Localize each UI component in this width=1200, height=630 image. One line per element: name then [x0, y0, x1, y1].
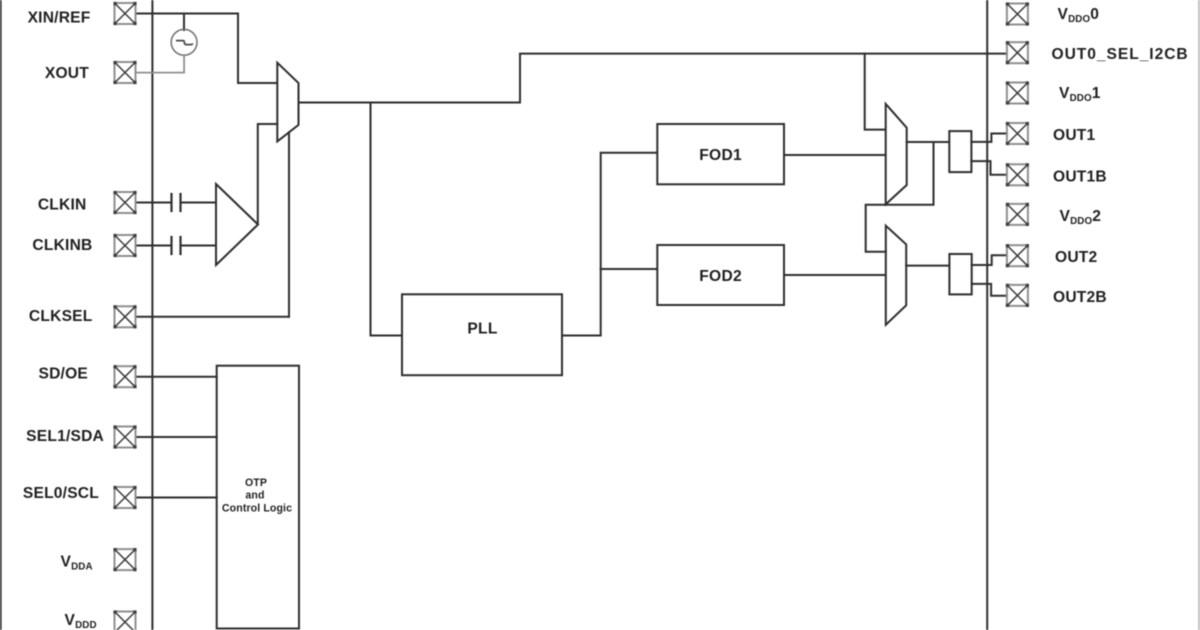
wire SEL1/SDA to OTP [136, 436, 217, 438]
svg-text:SD/OE: SD/OE [38, 366, 88, 383]
mux U3 OUT2 [886, 226, 906, 325]
svg-text:XIN/REF: XIN/REF [28, 10, 91, 27]
wire CLKINB to cap [136, 245, 171, 247]
pin CLKSEL [113, 305, 136, 328]
pin XOUT [113, 61, 136, 84]
svg-text:Control Logic: Control Logic [222, 503, 292, 515]
wire buffer out to mux input 2 [258, 124, 278, 224]
wire CLKSEL [136, 316, 290, 318]
wire osc stem bottom to XOUT [136, 55, 185, 72]
wire mux select [288, 132, 290, 316]
pin CLKINB [113, 234, 136, 257]
svg-text:OTP: OTP [245, 477, 267, 489]
wire mux1 out to buffer [907, 141, 950, 143]
FOD1 block [657, 124, 784, 184]
svg-text:VDDD: VDDD [65, 612, 97, 630]
svg-text:OUT2: OUT2 [1055, 249, 1098, 266]
svg-text:OUT2B: OUT2B [1053, 289, 1107, 306]
pin OUT0_SEL_I2CB [1006, 41, 1029, 64]
wire branch to OUT1 mux [865, 54, 886, 130]
pin OUT1B [1006, 163, 1029, 186]
chip right boundary [986, 0, 988, 630]
svg-text:SEL0/SCL: SEL0/SCL [23, 485, 99, 502]
pin SEL0/SCL [113, 486, 136, 509]
svg-text:OUT1B: OUT1B [1053, 169, 1107, 186]
svg-text:SEL1/SDA: SEL1/SDA [26, 428, 104, 445]
wire FOD1 out [784, 154, 886, 156]
pin XIN/REF [113, 2, 136, 25]
pin VDDO2 [1006, 203, 1029, 226]
wire OUT1 [971, 134, 1007, 142]
wire OUT1B [971, 161, 1007, 175]
mux U1 input select [277, 63, 298, 142]
svg-text:FOD2: FOD2 [699, 268, 742, 285]
wire osc stem top [183, 14, 185, 31]
wire SD/OE to OTP [136, 376, 217, 378]
wire XIN/REF to mux [136, 14, 278, 84]
wire mux out / bypass [299, 54, 1007, 103]
pin SD/OE [113, 365, 136, 388]
pin VDDO1 [1006, 81, 1029, 104]
mux U2 OUT1 [886, 104, 907, 204]
svg-text:CLKINB: CLKINB [32, 237, 92, 254]
pin VDDD [113, 610, 136, 630]
wire mux1 out routed to mux2 input [866, 142, 934, 252]
pin OUT1 [1006, 122, 1029, 145]
svg-text:FOD1: FOD1 [699, 147, 742, 164]
crystal oscillator Y1 [171, 29, 197, 55]
wire SEL0/SCL to OTP [136, 497, 217, 499]
svg-text:VDDO0: VDDO0 [1058, 6, 1100, 25]
wire OUT2B [972, 284, 1007, 296]
pin CLKIN [113, 191, 136, 214]
wire branch to PLL [371, 103, 403, 336]
wire cap to buffer [181, 245, 216, 247]
pin OUT2 [1006, 244, 1029, 267]
svg-text:CLKIN: CLKIN [38, 197, 87, 214]
PLL block [402, 294, 562, 375]
OTP and Control Logic block [217, 366, 299, 629]
capacitor C1 [170, 194, 172, 211]
pin VDDO0 [1006, 2, 1029, 25]
svg-text:VDDA: VDDA [61, 554, 93, 573]
svg-text:OUT0_SEL_I2CB: OUT0_SEL_I2CB [1052, 46, 1189, 63]
figure left border [0, 0, 2, 630]
pin symbols [113, 2, 1029, 630]
FOD2 block [657, 245, 784, 305]
output driver B1 [949, 131, 971, 172]
pin SEL1/SDA [113, 425, 136, 448]
wire branch to FOD2 [601, 268, 658, 270]
svg-text:CLKSEL: CLKSEL [29, 308, 93, 325]
chip left boundary [151, 0, 153, 630]
input buffer A1 [216, 184, 258, 265]
svg-text:and: and [245, 490, 264, 502]
wire FOD2 out [784, 274, 886, 276]
wire mux2 out to buffer [906, 265, 949, 267]
wire cap to buffer [181, 202, 216, 204]
svg-text:PLL: PLL [467, 321, 498, 338]
wire PLL out [562, 153, 657, 336]
pin OUT2B [1006, 284, 1029, 307]
svg-text:XOUT: XOUT [45, 65, 89, 82]
svg-text:VDDO2: VDDO2 [1060, 208, 1102, 227]
wire OUT2 [972, 255, 1007, 265]
pin VDDA [113, 548, 136, 571]
svg-text:OUT1: OUT1 [1053, 127, 1096, 144]
output driver B2 [949, 254, 971, 294]
svg-text:VDDO1: VDDO1 [1059, 85, 1101, 104]
figure right border [1198, 0, 1200, 630]
capacitor C2 [170, 237, 172, 254]
wire CLKIN to cap [136, 202, 171, 204]
